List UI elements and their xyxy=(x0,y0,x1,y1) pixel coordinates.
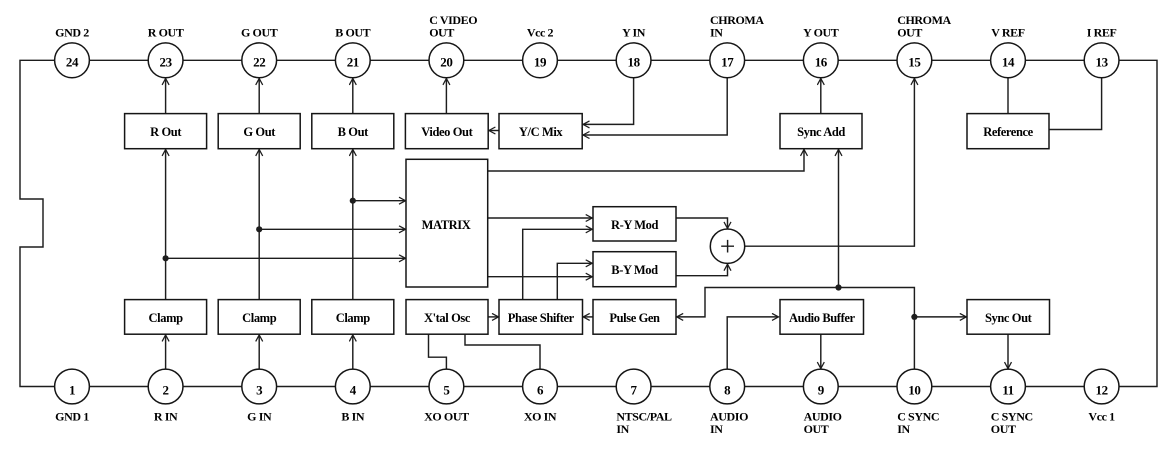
wire MATRIX to R-Y Mod xyxy=(488,217,593,219)
svg-text:G IN: G IN xyxy=(247,410,272,424)
svg-text:G OUT: G OUT xyxy=(241,26,278,40)
wire pin 3 G IN to Clamp xyxy=(258,335,260,369)
svg-text:20: 20 xyxy=(440,54,452,69)
svg-text:2: 2 xyxy=(163,383,169,398)
block G1 G Out xyxy=(218,114,300,149)
svg-text:Clamp: Clamp xyxy=(242,311,277,325)
svg-text:IN: IN xyxy=(710,26,723,40)
wire pin 13 to Reference xyxy=(1049,78,1102,130)
pin 13 xyxy=(1084,43,1119,78)
svg-text:B OUT: B OUT xyxy=(335,26,370,40)
pin 4 xyxy=(335,369,370,404)
svg-text:Clamp: Clamp xyxy=(149,311,184,325)
pin 17 xyxy=(710,43,745,78)
svg-text:3: 3 xyxy=(256,383,263,398)
pin 11 xyxy=(991,369,1026,404)
junction R to MATRIX xyxy=(163,255,169,261)
svg-text:Pulse Gen: Pulse Gen xyxy=(609,311,660,325)
block SO Sync Out xyxy=(967,300,1050,335)
svg-text:Y OUT: Y OUT xyxy=(803,26,839,40)
pin 10 xyxy=(897,369,932,404)
svg-text:IN: IN xyxy=(616,422,629,436)
junction B to MATRIX xyxy=(350,198,356,204)
block PS Phase Shifter xyxy=(499,300,583,335)
wire R-Y Mod to summing junction xyxy=(676,218,728,228)
summing junction adder (+) xyxy=(710,229,744,263)
svg-text:11: 11 xyxy=(1002,383,1013,398)
svg-text:R Out: R Out xyxy=(150,125,182,139)
pin 23 xyxy=(148,43,183,78)
wire Pulse Gen to Phase Shifter xyxy=(583,316,593,318)
svg-text:G Out: G Out xyxy=(243,125,276,139)
block XO X'tal Osc xyxy=(406,300,488,335)
block U1 MATRIX xyxy=(406,159,488,287)
svg-text:Vcc 1: Vcc 1 xyxy=(1088,410,1115,424)
wire B-Y Mod to summing junction xyxy=(676,264,728,276)
svg-text:B-Y Mod: B-Y Mod xyxy=(611,263,658,277)
pin 9 xyxy=(803,369,838,404)
wire pin 18 Y IN to Y/C Mix xyxy=(583,78,634,125)
svg-text:17: 17 xyxy=(721,54,734,69)
wire X'tal Osc to pin 5 XO OUT xyxy=(429,334,447,369)
pin 18 xyxy=(616,43,651,78)
block CL2 Clamp xyxy=(218,300,300,335)
pin 21 xyxy=(335,43,370,78)
svg-text:Y IN: Y IN xyxy=(622,26,646,40)
block CL1 Clamp xyxy=(125,300,207,335)
svg-text:Y/C Mix: Y/C Mix xyxy=(519,125,564,139)
svg-text:Video Out: Video Out xyxy=(421,125,473,139)
svg-text:V REF: V REF xyxy=(991,26,1025,40)
svg-text:12: 12 xyxy=(1095,383,1107,398)
svg-text:23: 23 xyxy=(159,54,172,69)
wire Clamp to G Out xyxy=(258,149,260,299)
svg-text:Clamp: Clamp xyxy=(336,311,371,325)
svg-text:Phase Shifter: Phase Shifter xyxy=(508,311,575,325)
wire pin 4 B IN to Clamp xyxy=(352,335,354,369)
block RF Reference xyxy=(967,114,1049,149)
wire pin 8 AUDIO IN to Audio Buffer xyxy=(727,317,778,369)
svg-text:XO OUT: XO OUT xyxy=(424,410,469,424)
block YC Y/C Mix xyxy=(499,114,582,149)
svg-text:15: 15 xyxy=(908,54,921,69)
pin 22 xyxy=(242,43,277,78)
block PG Pulse Gen xyxy=(593,300,676,335)
pin 6 xyxy=(523,369,558,404)
svg-text:13: 13 xyxy=(1095,54,1108,69)
wire C SYNC branch to Sync Add xyxy=(838,149,840,287)
block SA Sync Add xyxy=(780,114,862,149)
block BY B-Y Mod xyxy=(593,252,676,287)
svg-text:XO IN: XO IN xyxy=(524,410,557,424)
svg-text:6: 6 xyxy=(537,383,544,398)
pin 8 xyxy=(710,369,745,404)
block RY R-Y Mod xyxy=(593,207,676,241)
wire pin 10 C SYNC IN net to Pulse Gen xyxy=(677,288,915,370)
svg-text:R OUT: R OUT xyxy=(148,26,184,40)
svg-text:OUT: OUT xyxy=(897,26,922,40)
wire MATRIX Y output to Sync Add xyxy=(488,149,804,171)
pin 12 xyxy=(1084,369,1119,404)
pin 20 xyxy=(429,43,464,78)
pin 19 xyxy=(523,43,558,78)
svg-text:10: 10 xyxy=(908,383,920,398)
wire G Out to pin 22 xyxy=(258,78,260,113)
svg-text:8: 8 xyxy=(724,383,731,398)
junction C SYNC / Sync Add xyxy=(835,284,841,290)
wire C SYNC branch to Sync Out xyxy=(914,316,966,318)
pin 3 xyxy=(242,369,277,404)
svg-text:22: 22 xyxy=(253,54,265,69)
svg-text:Vcc 2: Vcc 2 xyxy=(527,26,554,40)
wire B Out to pin 21 xyxy=(352,78,354,113)
block AB Audio Buffer xyxy=(780,300,864,335)
wire B signal to MATRIX xyxy=(353,200,406,202)
pin 24 xyxy=(55,43,90,78)
wire X'tal Osc to pin 6 XO IN xyxy=(465,334,540,369)
svg-text:B IN: B IN xyxy=(341,410,364,424)
svg-text:OUT: OUT xyxy=(991,422,1016,436)
svg-text:I REF: I REF xyxy=(1087,26,1117,40)
block VO Video Out xyxy=(405,114,488,149)
pin 2 xyxy=(148,369,183,404)
pin 5 xyxy=(429,369,464,404)
wire X'tal Osc to Phase Shifter xyxy=(488,316,499,318)
wire pin 17 CHROMA IN to Y/C Mix xyxy=(583,78,727,135)
block R1 R Out xyxy=(125,114,207,149)
IC package outline with index notch xyxy=(20,60,1157,386)
junction C SYNC / Sync Out xyxy=(911,314,917,320)
wire Video Out to pin 20 xyxy=(445,78,447,113)
block B1 B Out xyxy=(312,114,394,149)
svg-text:18: 18 xyxy=(627,54,640,69)
svg-text:1: 1 xyxy=(69,383,75,398)
block CL3 Clamp xyxy=(312,300,394,335)
pin 16 xyxy=(803,43,838,78)
junction G to MATRIX xyxy=(256,226,262,232)
svg-text:OUT: OUT xyxy=(804,422,829,436)
svg-text:Sync Out: Sync Out xyxy=(985,311,1033,325)
pin 14 xyxy=(991,43,1026,78)
wire Sync Add to pin 16 xyxy=(820,78,822,113)
svg-text:OUT: OUT xyxy=(429,26,454,40)
svg-text:4: 4 xyxy=(350,383,357,398)
wire Phase Shifter to B-Y Mod xyxy=(557,263,592,299)
svg-text:IN: IN xyxy=(710,422,723,436)
svg-text:GND 2: GND 2 xyxy=(55,26,89,40)
wire MATRIX to B-Y Mod xyxy=(488,276,593,278)
wire R signal to MATRIX xyxy=(166,257,406,259)
svg-text:MATRIX: MATRIX xyxy=(422,218,471,232)
svg-text:7: 7 xyxy=(631,383,638,398)
svg-text:24: 24 xyxy=(66,54,79,69)
pin 1 xyxy=(55,369,90,404)
svg-text:21: 21 xyxy=(347,54,359,69)
svg-text:Sync Add: Sync Add xyxy=(797,125,845,139)
wire Phase Shifter to R-Y Mod xyxy=(523,229,593,299)
svg-text:X'tal Osc: X'tal Osc xyxy=(424,311,471,325)
svg-text:GND 1: GND 1 xyxy=(55,410,89,424)
svg-text:9: 9 xyxy=(818,383,825,398)
svg-text:14: 14 xyxy=(1002,54,1015,69)
svg-text:Audio Buffer: Audio Buffer xyxy=(789,311,856,325)
pin 7 xyxy=(616,369,651,404)
svg-text:Reference: Reference xyxy=(983,125,1033,139)
wire G signal to MATRIX xyxy=(259,228,405,230)
svg-text:19: 19 xyxy=(534,54,547,69)
wire pin 14 to Reference xyxy=(1007,78,1009,114)
wire Clamp to B Out xyxy=(352,149,354,299)
svg-text:R-Y Mod: R-Y Mod xyxy=(611,218,659,232)
wire summing junction to pin 15 CHROMA OUT xyxy=(745,78,915,246)
wire Sync Out to pin 11 C SYNC OUT xyxy=(1007,334,1009,368)
svg-text:16: 16 xyxy=(815,54,828,69)
wire Y/C Mix to Video Out xyxy=(489,130,499,132)
pin 15 xyxy=(897,43,932,78)
svg-text:B Out: B Out xyxy=(338,125,370,139)
wire R Out to pin 23 xyxy=(165,78,167,113)
svg-text:IN: IN xyxy=(897,422,910,436)
wire Audio Buffer to pin 9 AUDIO OUT xyxy=(820,334,822,368)
wire Clamp to R Out xyxy=(165,149,167,299)
svg-text:5: 5 xyxy=(443,383,450,398)
wire pin 2 R IN to Clamp xyxy=(165,335,167,369)
svg-text:R IN: R IN xyxy=(154,410,178,424)
